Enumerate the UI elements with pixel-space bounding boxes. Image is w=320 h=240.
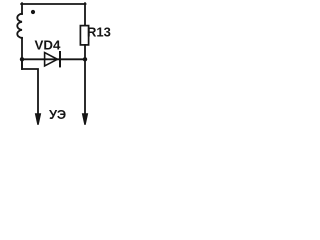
- wire left vertical upper: [21, 3, 23, 14]
- wire top horizontal: [21, 3, 85, 5]
- arrowhead left output: [35, 113, 41, 125]
- wire diode row horizontal: [22, 58, 85, 60]
- diode VD4 triangle: [45, 53, 58, 66]
- svg-text:R13: R13: [87, 24, 111, 39]
- inductor L1 winding (three arcs): [17, 14, 22, 38]
- junction node left: [20, 57, 24, 61]
- diode VD4 cathode bar: [59, 52, 61, 66]
- wire left branch to arrow: [22, 59, 38, 116]
- resistor R13 body: [80, 26, 88, 45]
- wire right vertical lower: [84, 45, 86, 116]
- svg-text:VD4: VD4: [35, 37, 61, 52]
- wire right vertical upper: [84, 3, 86, 25]
- junction node right: [83, 57, 87, 61]
- arrowhead right output: [82, 113, 88, 125]
- svg-text:УЭ: УЭ: [49, 107, 66, 122]
- winding polarity dot: [31, 10, 35, 14]
- wire left vertical lower: [21, 38, 23, 69]
